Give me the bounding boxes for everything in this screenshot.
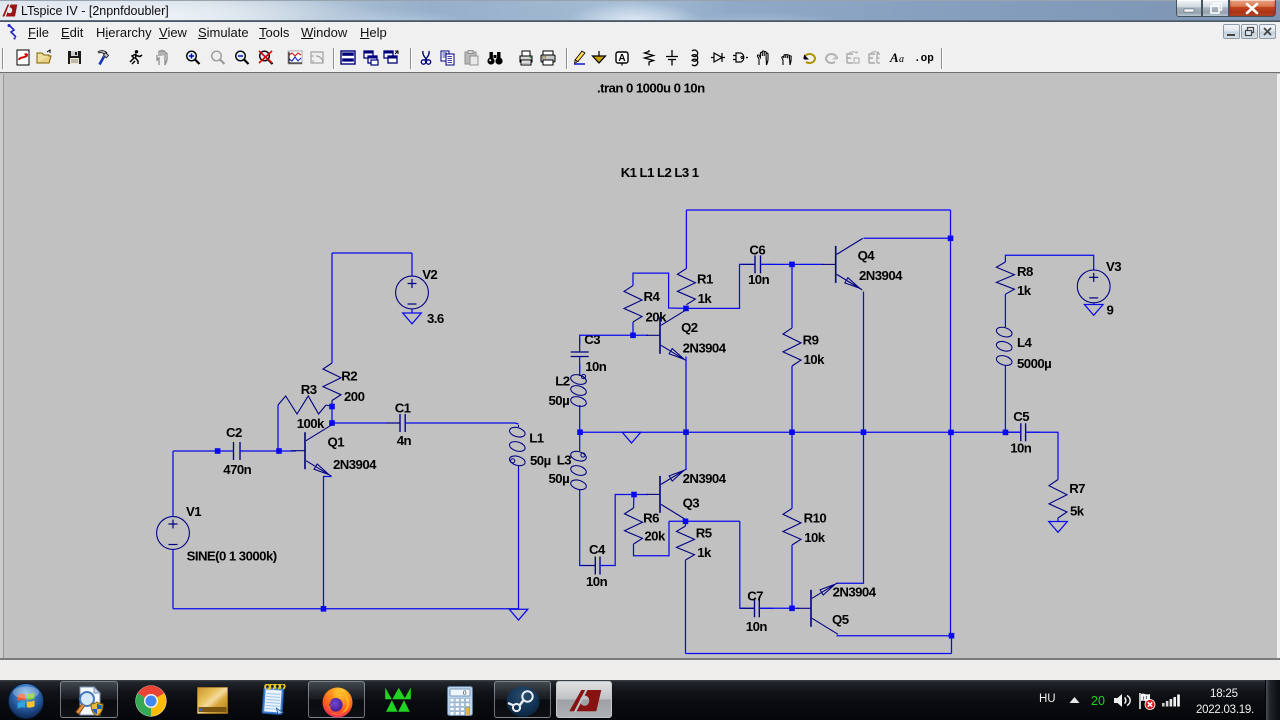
- transistor Q2: [659, 317, 661, 354]
- svg-text:Q4: Q4: [858, 248, 876, 263]
- wire R7 bottom lead: [1057, 518, 1059, 522]
- svg-text:2N3904: 2N3904: [859, 268, 903, 283]
- node node I (C6/R9/Q4 base): [789, 262, 795, 268]
- svg-text:10n: 10n: [748, 272, 770, 287]
- resistor R6: [625, 508, 643, 544]
- wire R8 top rail to V3: [1005, 255, 1093, 270]
- wire R9 bottom to node MID: [791, 366, 793, 432]
- wire V2 top lead: [411, 253, 413, 276]
- wire V2 rail vertical to R2: [331, 253, 333, 363]
- svg-text:K1 L1 L2 L3 1: K1 L1 L2 L3 1: [621, 165, 699, 180]
- wire top rail: [686, 209, 950, 211]
- svg-text:SINE(0 1 3000k): SINE(0 1 3000k): [187, 549, 277, 564]
- wire right column to bottom rail: [951, 636, 953, 654]
- wire node MID down to L3: [579, 432, 581, 449]
- svg-text:0: 0: [463, 690, 467, 697]
- svg-text:L2: L2: [555, 374, 570, 389]
- svg-text:10n: 10n: [586, 574, 608, 589]
- wire Q3 emitter up to node MID: [685, 432, 687, 470]
- node node MID at right column: [948, 430, 954, 436]
- node node J (Q4 collector at right column): [948, 236, 954, 242]
- wire node MID to C5: [1006, 431, 1021, 433]
- wire node B to node C: [331, 407, 333, 424]
- ground: [622, 432, 641, 443]
- svg-text:L4: L4: [1017, 335, 1033, 350]
- svg-text:C3: C3: [584, 332, 600, 347]
- inductor L4: [1004, 325, 1006, 327]
- resistor R2: [323, 363, 341, 401]
- resistor R9: [783, 328, 801, 366]
- wire bottom left ground rail: [173, 608, 519, 610]
- transistor Q1: [304, 432, 306, 469]
- capacitor C1: [400, 414, 405, 432]
- svg-text:1k: 1k: [697, 545, 712, 560]
- resistor R3: [278, 396, 326, 414]
- wire C2 right to node A: [240, 450, 278, 452]
- svg-text:R2: R2: [341, 369, 357, 384]
- svg-text:3.6: 3.6: [427, 311, 444, 326]
- wire C3 top corner: [580, 335, 648, 344]
- wire C3 bottom to L2: [579, 365, 581, 375]
- voltage source V2: [396, 276, 429, 309]
- capacitor C2: [234, 442, 241, 460]
- svg-text:R6: R6: [643, 511, 659, 526]
- node node GND-left (Q1 emitter at rail): [321, 606, 327, 612]
- svg-text:2N3904: 2N3904: [833, 585, 877, 600]
- svg-text:Q3: Q3: [683, 496, 700, 511]
- wire V1 top to C2 row: [172, 451, 174, 517]
- node node F (Q3 collector/R5 top): [683, 519, 689, 525]
- resistor R1: [677, 269, 695, 305]
- wire C1 right to L1: [405, 423, 518, 424]
- L1 phase dot: [511, 459, 515, 463]
- node node A (C2/R3/Q1 base): [276, 448, 282, 454]
- svg-text:R1: R1: [697, 272, 713, 287]
- wire L4 top to R8: [1004, 294, 1006, 325]
- svg-text:Q2: Q2: [681, 320, 698, 335]
- node node D (C3/R4/Q2 base): [630, 333, 636, 339]
- wire C7 right to node G: [759, 607, 792, 609]
- svg-text:5000µ: 5000µ: [1017, 356, 1051, 371]
- voltage source V1: [157, 517, 190, 550]
- node node K (Q5 collector/right column): [949, 633, 955, 639]
- wire L2 bottom to node MID: [579, 407, 581, 432]
- wire R10 bottom to node G: [791, 545, 793, 608]
- wire R4 top hook to node H: [633, 273, 686, 308]
- svg-text:V2: V2: [422, 267, 437, 282]
- wire R6 bottom hook to R5 row: [634, 521, 670, 556]
- wire L4 bottom to node MID: [1004, 368, 1006, 433]
- resistor R7: [1049, 480, 1067, 519]
- node node C (Q1 collector): [329, 420, 335, 426]
- node node MID at Q4 emitter column: [861, 429, 867, 435]
- ground: [1084, 305, 1103, 316]
- svg-text:R5: R5: [696, 526, 712, 541]
- wire R5 bottom to bottom rail: [685, 560, 687, 654]
- wire R5 row to C7 riser: [669, 520, 740, 522]
- wire L3 bottom to C4: [580, 492, 596, 566]
- wire bottom right rail: [686, 653, 952, 655]
- node node G (R10 bottom/Q5 base): [789, 606, 795, 612]
- wire R5 top lead: [685, 521, 687, 526]
- svg-text:20k: 20k: [644, 529, 666, 544]
- inductor L2: [579, 374, 581, 376]
- node node A2 (C2 left pin on wire): [215, 448, 221, 454]
- svg-text:C5: C5: [1013, 409, 1029, 424]
- svg-text:R9: R9: [803, 333, 819, 348]
- ground: [509, 609, 528, 620]
- svg-text:V3: V3: [1106, 259, 1121, 274]
- wire C5 right to R7: [1026, 432, 1058, 479]
- wire C1 left segment: [332, 422, 400, 424]
- svg-text:20k: 20k: [646, 310, 668, 325]
- svg-text:R4: R4: [644, 289, 661, 304]
- svg-text:C7: C7: [747, 589, 763, 604]
- wire node MID down to Q5 emitter: [837, 432, 864, 583]
- svg-text:R8: R8: [1017, 264, 1033, 279]
- wire node A up to R3: [277, 405, 279, 451]
- svg-text:V1: V1: [186, 504, 201, 519]
- svg-text:R10: R10: [804, 511, 827, 526]
- wire V2 bottom lead: [411, 309, 413, 313]
- capacitor C3: [571, 352, 589, 357]
- svg-text:1k: 1k: [698, 291, 713, 306]
- resistor R5: [677, 526, 695, 560]
- resistor R8: [996, 262, 1014, 294]
- node node MID at R9/R10: [789, 429, 795, 435]
- wire V2 rail horizontal: [332, 252, 412, 254]
- wire center rail (node MID): [580, 431, 1006, 433]
- L3 phase dot: [581, 453, 585, 457]
- svg-text:2N3904: 2N3904: [333, 457, 377, 472]
- svg-text:5k: 5k: [1070, 504, 1085, 519]
- wire Q4 collector to right column: [864, 237, 951, 239]
- wire C4 right riser to Q3 base node: [600, 495, 648, 566]
- svg-text:200: 200: [344, 389, 365, 404]
- wire C7 riser: [740, 521, 755, 608]
- node node B (R2/R3 bottom): [329, 404, 335, 410]
- svg-text:C2: C2: [226, 425, 242, 440]
- node node MID at L2/L3: [577, 429, 583, 435]
- svg-text:2N3904: 2N3904: [683, 471, 727, 486]
- svg-text:9: 9: [1107, 303, 1114, 318]
- svg-text:C1: C1: [395, 401, 411, 416]
- wire L1 bottom to ground rail: [518, 468, 520, 609]
- transistor Q3 (flipped): [659, 476, 661, 513]
- L2 phase dot: [581, 374, 585, 378]
- wire node A to Q1 base: [278, 450, 296, 452]
- wire R10 top from node MID: [791, 432, 793, 508]
- svg-text:100k: 100k: [297, 416, 325, 431]
- svg-text:L3: L3: [557, 453, 572, 468]
- wire node G to Q5 base: [792, 607, 799, 609]
- svg-text:C6: C6: [749, 243, 765, 258]
- wire right column: [950, 210, 952, 636]
- wire node H to C6: [686, 264, 755, 308]
- wire V1 bottom lead: [172, 549, 174, 608]
- inductor L3: [579, 449, 581, 451]
- svg-text:L1: L1: [529, 431, 544, 446]
- wire node I to Q4 base: [792, 263, 824, 265]
- svg-text:470n: 470n: [223, 462, 251, 477]
- capacitor C4: [595, 557, 600, 575]
- wire C2 left: [173, 450, 234, 452]
- svg-text:1k: 1k: [1017, 283, 1032, 298]
- wire R6 top lead: [633, 495, 636, 509]
- transistor Q4: [835, 246, 837, 283]
- voltage source V3: [1077, 270, 1110, 303]
- svg-text:Q5: Q5: [832, 612, 849, 627]
- wire R9 top lead: [791, 264, 793, 328]
- transistor Q5 (flipped): [810, 590, 812, 627]
- wire R1 top to top rail: [685, 210, 687, 269]
- node node H (R1 bottom/Q2 collector): [683, 306, 689, 312]
- svg-text:.tran 0 1000u 0 10n: .tran 0 1000u 0 10n: [597, 81, 705, 96]
- svg-text:4n: 4n: [397, 433, 412, 448]
- node node E (Q3 base/R6): [631, 492, 637, 498]
- svg-text:10n: 10n: [585, 359, 607, 374]
- svg-text:50µ: 50µ: [549, 393, 570, 408]
- capacitor C5: [1021, 423, 1026, 441]
- svg-text:50µ: 50µ: [549, 471, 570, 486]
- wire Q4 emitter down to node MID: [863, 292, 865, 433]
- wire Q5 collector to bottom right rail: [837, 635, 952, 637]
- wire C6 right to node I: [761, 263, 793, 265]
- svg-text:Q1: Q1: [328, 435, 345, 450]
- svg-text:C4: C4: [589, 542, 606, 557]
- svg-text:R7: R7: [1069, 481, 1085, 496]
- svg-text:50µ: 50µ: [530, 453, 551, 468]
- svg-text:10n: 10n: [1010, 440, 1032, 455]
- capacitor C6: [755, 255, 761, 273]
- wire Q2 emitter to node MID: [685, 357, 687, 433]
- inductor L1: [518, 425, 520, 427]
- svg-text:10k: 10k: [804, 352, 826, 367]
- node node MID at Q2 emitter: [683, 429, 689, 435]
- capacitor C7: [755, 599, 760, 617]
- svg-text:2N3904: 2N3904: [683, 341, 727, 356]
- ground: [403, 313, 422, 324]
- wire V3 bottom lead: [1093, 303, 1095, 305]
- svg-text:10k: 10k: [804, 530, 826, 545]
- wire Q1 emitter down: [324, 477, 332, 609]
- svg-text:R3: R3: [301, 382, 317, 397]
- resistor R4: [624, 286, 642, 322]
- wire R4 bottom to node D: [632, 322, 634, 335]
- resistor R10: [783, 509, 801, 546]
- svg-text:10n: 10n: [746, 619, 768, 634]
- ground: [1049, 522, 1068, 533]
- node node MID at L4/C5: [1003, 430, 1009, 436]
